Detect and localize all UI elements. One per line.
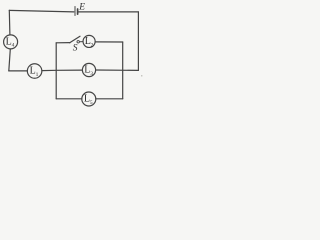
wire left edge lower [9, 49, 11, 71]
lamp L4 [4, 35, 18, 49]
svg-text:2: 2 [91, 42, 94, 48]
switch S blade [70, 36, 80, 43]
wire bottom row left [56, 98, 82, 100]
svg-text:3: 3 [90, 71, 93, 77]
wire contact to lamp L2 [80, 41, 84, 43]
svg-text:E: E [78, 3, 85, 13]
wire top left [9, 10, 74, 12]
wire middle row right [96, 69, 139, 71]
svg-text:4: 4 [12, 43, 15, 49]
wire switch row right [95, 41, 123, 43]
svg-text:S: S [73, 43, 78, 53]
battery E long plate [74, 7, 76, 16]
wire switch row left [56, 42, 70, 44]
lamp L3 [82, 63, 95, 76]
speck near right edge [141, 75, 142, 76]
wire middle row center [42, 69, 82, 72]
svg-text:1: 1 [36, 72, 39, 78]
wire left edge upper [8, 10, 11, 34]
lamp L5 [82, 92, 96, 106]
lamp L1 [27, 64, 42, 79]
wire parallel branch left vertical [55, 43, 57, 99]
battery E short plate [77, 9, 79, 14]
wire middle row left [9, 70, 28, 72]
switch S contact [77, 41, 79, 43]
wire bottom row right [96, 98, 123, 100]
lamp L2 [83, 35, 95, 47]
svg-text:5: 5 [90, 100, 93, 106]
wire parallel branch right vertical [122, 42, 124, 99]
wire battery to top right corner [79, 11, 139, 13]
wire right edge [137, 12, 139, 71]
